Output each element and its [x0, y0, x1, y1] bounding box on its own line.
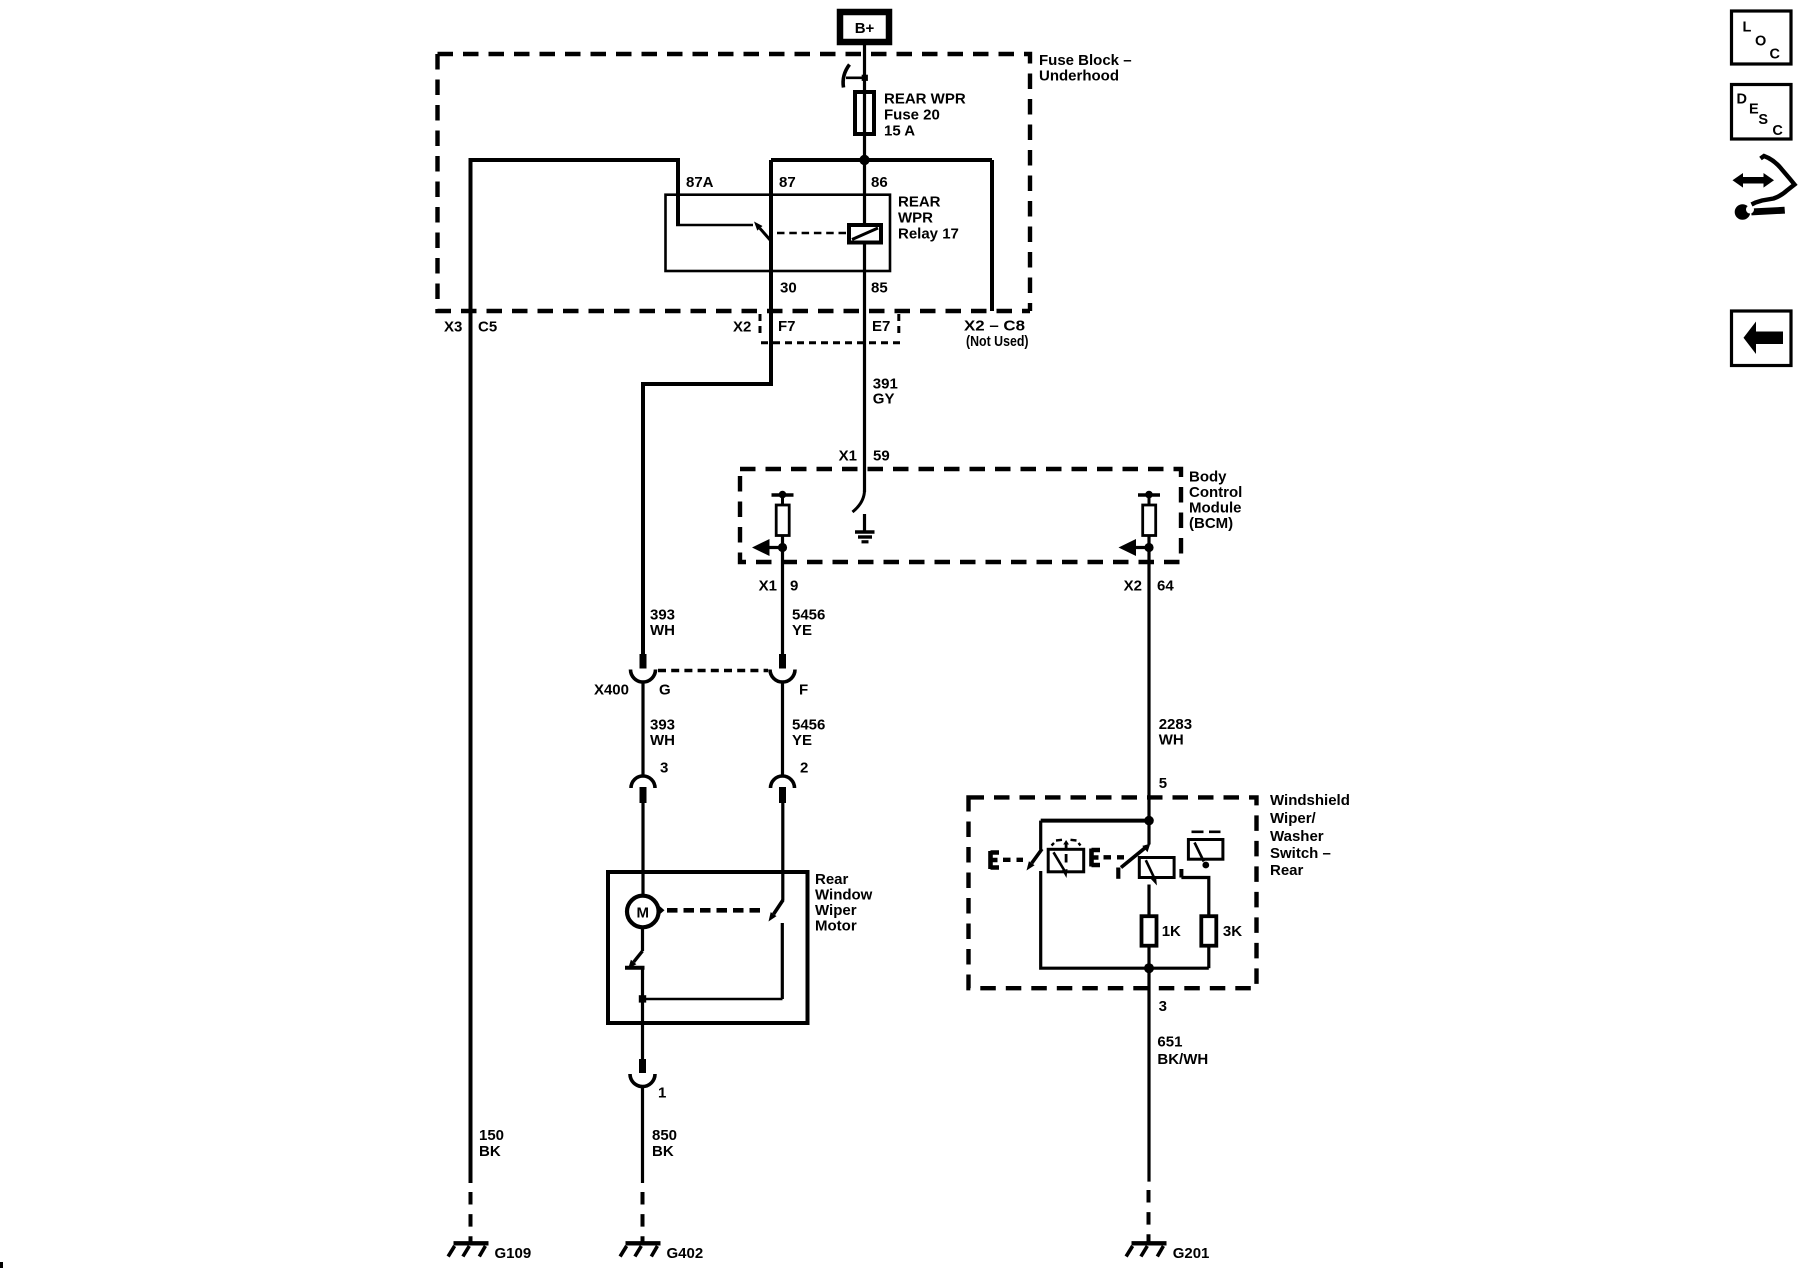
wire pin30 to X400: corner — [643, 382, 771, 655]
wire G to pin3 — [641, 682, 644, 777]
3K branch corner — [1181, 869, 1208, 916]
svg-text:F: F — [799, 682, 808, 699]
labels X1 59 at BCM — [839, 448, 890, 465]
icon DESC box — [1732, 85, 1792, 140]
motor internal wire down — [641, 968, 644, 1023]
BCM resistor X1-9 — [772, 491, 794, 562]
fuse REAR WPR Fuse 20 15A — [855, 91, 966, 140]
svg-text:M: M — [637, 905, 650, 922]
ground G201 — [1126, 1243, 1209, 1262]
wire relay top bus — [771, 158, 992, 162]
svg-text:Body: Body — [1189, 468, 1227, 485]
wire BCM X2-64 down to switch — [1147, 562, 1150, 821]
svg-text:E7: E7 — [872, 318, 890, 335]
ground G402 — [620, 1243, 703, 1262]
BCM internal ground — [855, 514, 875, 542]
svg-text:Rear: Rear — [1270, 862, 1304, 879]
1K branch wire — [1147, 885, 1150, 917]
svg-text:5456: 5456 — [792, 606, 825, 623]
svg-text:150: 150 — [479, 1127, 504, 1144]
motor name — [815, 871, 873, 935]
relay 17 box — [666, 195, 891, 271]
fuse block underhood dashed box — [438, 52, 1132, 311]
3K to bottom rail — [1207, 946, 1210, 969]
junction at switch feed — [1144, 816, 1154, 826]
wiper park icon 3 — [1188, 832, 1223, 869]
svg-text:D: D — [1737, 91, 1747, 107]
connector pin 3 at motor — [631, 760, 668, 804]
svg-text:GY: GY — [873, 390, 895, 407]
splice connector symbol at fuse block entry — [843, 65, 868, 88]
wire 850 BK — [641, 1087, 644, 1184]
svg-text:Relay 17: Relay 17 — [898, 225, 959, 242]
BCM output arrow X2-64 — [1119, 539, 1154, 556]
svg-text:2: 2 — [800, 760, 808, 777]
svg-text:X2: X2 — [1124, 577, 1142, 594]
wire motor to pin1 — [641, 1023, 644, 1060]
wire label 393 WH upper — [650, 606, 675, 639]
svg-text:3: 3 — [660, 760, 668, 777]
dashed wire end to G201 — [1147, 1190, 1151, 1244]
wire label 5456 YE lower — [792, 716, 825, 749]
svg-text:C: C — [1770, 47, 1781, 63]
connector X2 F7 E7 dashed box — [733, 314, 900, 343]
BCM dashed box — [740, 469, 1181, 562]
resistor 3K — [1201, 916, 1242, 946]
wire pin 85 vertical down to BCM — [863, 243, 866, 470]
wire pin2 into motor — [781, 803, 784, 901]
svg-text:Underhood: Underhood — [1039, 67, 1119, 84]
svg-text:Fuse 20: Fuse 20 — [884, 107, 940, 124]
svg-text:X400: X400 — [594, 682, 629, 699]
junction square in motor — [639, 995, 646, 1002]
wire label 393 WH lower — [650, 716, 675, 749]
connector X400 G — [594, 654, 671, 699]
wire C5 left vertical — [469, 158, 473, 1183]
svg-text:5: 5 — [1159, 775, 1167, 792]
wire label 5456 YE upper — [792, 606, 825, 639]
BCM input switch blade — [853, 469, 865, 512]
svg-text:9: 9 — [790, 577, 798, 594]
svg-text:REAR: REAR — [898, 193, 941, 210]
junction at 86 bus — [859, 155, 869, 165]
X400 harness dashed tie line — [658, 669, 768, 672]
svg-text:(BCM): (BCM) — [1189, 515, 1233, 532]
wire 87A feed horizontal — [471, 158, 679, 162]
svg-text:87: 87 — [779, 174, 796, 191]
svg-text:BK: BK — [652, 1143, 674, 1160]
BCM name — [1189, 468, 1242, 532]
rear window wiper motor box — [608, 872, 808, 1023]
svg-text:BK: BK — [479, 1143, 501, 1160]
rear wiper switch E blade middle — [1118, 844, 1150, 879]
connector pin 2 at motor — [771, 760, 809, 804]
svg-text:3K: 3K — [1223, 923, 1242, 940]
svg-text:30: 30 — [780, 280, 797, 297]
relay pin labels — [686, 174, 888, 297]
svg-text:G109: G109 — [495, 1245, 532, 1262]
svg-text:Control: Control — [1189, 484, 1242, 501]
motor internal return wire — [643, 998, 783, 1000]
svg-text:C5: C5 — [478, 319, 497, 336]
battery feed B+ — [840, 12, 889, 42]
relay coil — [849, 225, 881, 243]
svg-text:G402: G402 — [667, 1245, 704, 1262]
labels X2 64 below BCM — [1124, 577, 1175, 594]
junction at switch output — [1144, 963, 1154, 973]
icon back arrow box — [1732, 311, 1792, 366]
wire F to pin2 — [781, 682, 784, 777]
labels X1 9 below BCM — [759, 577, 799, 594]
svg-text:Wiper: Wiper — [815, 902, 857, 919]
svg-text:C: C — [1772, 123, 1783, 139]
svg-text:Rear: Rear — [815, 871, 849, 888]
label X2-C8 not used — [964, 318, 1029, 351]
resistor 1K — [1142, 916, 1182, 946]
svg-text:WH: WH — [1159, 731, 1184, 748]
svg-text:1: 1 — [658, 1084, 666, 1101]
switch name — [1270, 792, 1350, 879]
svg-text:X2: X2 — [733, 319, 751, 336]
svg-text:X3: X3 — [444, 319, 462, 336]
svg-text:86: 86 — [871, 174, 888, 191]
windshield wiper washer switch dashed box — [969, 797, 1257, 988]
svg-text:Wiper/: Wiper/ — [1270, 810, 1317, 827]
svg-text:X2 – C8: X2 – C8 — [964, 318, 1025, 335]
svg-text:Module: Module — [1189, 499, 1242, 516]
svg-text:651: 651 — [1157, 1033, 1182, 1050]
svg-text:Window: Window — [815, 887, 873, 904]
motor switch contact bar — [625, 966, 645, 970]
svg-text:YE: YE — [792, 622, 812, 639]
wire pin3 into motor — [641, 803, 644, 895]
page artifact dot — [0, 1262, 3, 1268]
svg-text:87A: 87A — [686, 174, 714, 191]
wire B+ to fuse — [863, 45, 866, 92]
svg-text:3: 3 — [1159, 998, 1167, 1015]
wire BCM X1-9 down to X400 F — [781, 562, 784, 655]
svg-text:WPR: WPR — [898, 209, 933, 226]
wire label 150 BK — [479, 1127, 504, 1160]
svg-text:Washer: Washer — [1270, 828, 1324, 845]
svg-text:85: 85 — [871, 280, 888, 297]
1K to junction — [1147, 946, 1150, 969]
wire label 850 BK — [652, 1127, 677, 1160]
svg-text:F7: F7 — [778, 318, 796, 335]
svg-text:393: 393 — [650, 606, 675, 623]
connector labels X3 C5 — [444, 319, 497, 336]
relay switch blade with arrow — [754, 222, 771, 242]
wire switch output down — [1147, 968, 1150, 1181]
wire X2-C8 not used stub — [990, 160, 994, 311]
motor M circle — [627, 896, 659, 928]
wire pin 87 / pin 30 vertical — [769, 160, 773, 384]
connector pin 1 — [630, 1059, 666, 1101]
svg-text:L: L — [1743, 20, 1752, 36]
E cam symbol left — [991, 851, 1024, 869]
wiper park icon 1 — [1048, 840, 1084, 878]
svg-text:WH: WH — [650, 732, 675, 749]
svg-text:Windshield: Windshield — [1270, 792, 1350, 809]
svg-text:Motor: Motor — [815, 918, 857, 935]
relay coil dashed actuation line — [777, 232, 847, 235]
dashed wire end to G402 — [641, 1192, 645, 1244]
svg-text:G: G — [659, 682, 671, 699]
icon harness repair tools — [1733, 156, 1795, 220]
motor park contact right vertical — [781, 923, 784, 999]
svg-text:1K: 1K — [1162, 923, 1181, 940]
relay name REAR WPR Relay 17 — [898, 193, 959, 242]
E cam symbol middle — [1092, 849, 1125, 867]
svg-text:B+: B+ — [855, 20, 875, 37]
motor dashed actuation line — [659, 906, 665, 916]
svg-text:S: S — [1758, 112, 1768, 128]
svg-text:O: O — [1755, 34, 1766, 50]
wire pin 87A drop — [676, 158, 680, 225]
svg-text:59: 59 — [873, 448, 890, 465]
wire label 2283 WH — [1159, 716, 1192, 749]
svg-text:WH: WH — [650, 622, 675, 639]
svg-text:REAR WPR: REAR WPR — [884, 91, 966, 108]
svg-text:64: 64 — [1157, 577, 1174, 594]
svg-text:850: 850 — [652, 1127, 677, 1144]
switch bottom rail — [1041, 871, 1209, 968]
wire label 391 GY — [873, 375, 898, 407]
wire fuse to relay bus — [863, 134, 866, 160]
wire 87A contact line — [676, 224, 753, 226]
svg-text:X1: X1 — [839, 448, 857, 465]
washer switch E blade left — [1027, 849, 1043, 871]
motor internal switch blade left — [628, 926, 643, 969]
wire label 651 BK/WH — [1157, 1033, 1208, 1068]
motor park switch blade right — [769, 900, 784, 922]
dashed wire end to G109 — [469, 1192, 473, 1244]
ground G109 — [448, 1243, 531, 1262]
svg-text:X1: X1 — [759, 577, 777, 594]
svg-text:15 A: 15 A — [884, 123, 915, 140]
switch internal feed bus — [1041, 819, 1149, 823]
wire pin 86 vertical — [863, 160, 866, 225]
wiper park icon 2 — [1139, 858, 1174, 886]
BCM output arrow X1-9 — [752, 539, 787, 556]
svg-text:5456: 5456 — [792, 716, 825, 733]
svg-text:BK/WH: BK/WH — [1157, 1051, 1208, 1068]
svg-text:393: 393 — [650, 716, 675, 733]
BCM resistor X2-64 — [1138, 491, 1160, 562]
wiper switch contact stub left — [1039, 821, 1042, 850]
svg-text:Switch –: Switch – — [1270, 845, 1331, 862]
svg-text:G201: G201 — [1173, 1245, 1210, 1262]
switch feed stub middle — [1147, 821, 1150, 845]
svg-text:2283: 2283 — [1159, 716, 1192, 733]
icon LOC box — [1732, 11, 1792, 64]
svg-text:YE: YE — [792, 732, 812, 749]
connector X400 F — [770, 654, 808, 699]
svg-text:(Not Used): (Not Used) — [966, 333, 1029, 350]
